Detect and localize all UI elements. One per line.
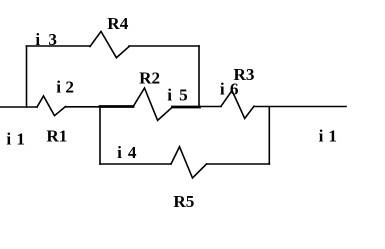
svg-text:i: i bbox=[117, 143, 122, 162]
svg-text:i: i bbox=[56, 78, 61, 97]
svg-text:2: 2 bbox=[65, 78, 74, 97]
resistor R3 bbox=[221, 91, 254, 119]
svg-text:i: i bbox=[220, 80, 225, 99]
resistor R2 bbox=[133, 88, 173, 120]
wire: upper loop left vertical (node A up) bbox=[26, 46, 28, 107]
wire: bottom-right horizontal from R5 bbox=[207, 163, 270, 165]
svg-text:1: 1 bbox=[16, 129, 25, 148]
wire: bottom-left horizontal to R5 bbox=[100, 163, 171, 165]
resistor R1 bbox=[37, 96, 66, 116]
wire: top-right horizontal from R4 bbox=[129, 45, 199, 47]
svg-text:R2: R2 bbox=[139, 68, 160, 87]
svg-text:R4: R4 bbox=[107, 14, 128, 33]
wire: node B to R2 (thick segment) bbox=[100, 105, 133, 108]
svg-text:i: i bbox=[167, 86, 172, 105]
wire: R3 to node D and right output lead bbox=[254, 106, 346, 108]
svg-text:i: i bbox=[319, 127, 324, 146]
wire: R2 to node C (thick segment) bbox=[173, 106, 200, 109]
svg-text:i: i bbox=[35, 30, 40, 49]
svg-text:3: 3 bbox=[48, 30, 57, 49]
wire: bottom loop left vertical (node B down) bbox=[99, 107, 101, 164]
resistor R5 bbox=[171, 147, 207, 178]
wire: top-left horizontal to R4 bbox=[27, 45, 91, 47]
wire: bottom loop right vertical (up to node D) bbox=[268, 107, 270, 164]
svg-text:R3: R3 bbox=[234, 65, 255, 84]
svg-text:i: i bbox=[6, 129, 11, 148]
svg-text:5: 5 bbox=[179, 86, 188, 105]
svg-text:R1: R1 bbox=[46, 127, 67, 146]
wire: node C to R3 bbox=[200, 106, 222, 108]
wire: left input lead (node A to R1) bbox=[0, 106, 37, 108]
resistor R4 bbox=[90, 31, 129, 57]
svg-text:1: 1 bbox=[328, 127, 337, 146]
svg-text:R5: R5 bbox=[173, 192, 194, 211]
svg-text:4: 4 bbox=[128, 143, 137, 162]
wire: R1 to node B bbox=[66, 106, 101, 108]
wire: upper loop right vertical (down to node C) bbox=[198, 46, 200, 107]
